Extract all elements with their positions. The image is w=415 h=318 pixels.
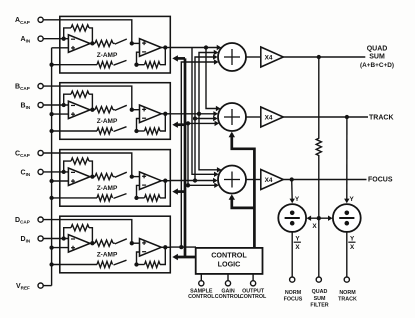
svg-text:X4: X4 [265,114,273,121]
junction output row 1 tap [317,55,321,59]
wire summer S2 to X4 amplifier [246,116,261,118]
wire op-amp A2 - input to feedback node [137,52,140,64]
wire op-amp B2 - input to feedback node [137,119,140,132]
D_CAP terminal [38,217,43,222]
wire D2 output to block edge [161,246,170,248]
wire D output to bus [170,246,196,248]
junction v188 / S2 tap [186,121,190,125]
svg-text:CONTROL: CONTROL [188,294,215,300]
op-amp A1 first stage [68,35,90,53]
wire resistor D2 to output [160,247,165,264]
resistor feedback D2 [145,261,161,267]
control wire to Z-AMP D [178,256,196,259]
resistor lower gain A [97,62,113,68]
junction op-amp C2 output [163,179,167,183]
svg-text:CONTROL: CONTROL [215,294,242,300]
svg-text:Z-AMP: Z-AMP [97,252,118,259]
op-amp D1 first stage [68,235,90,253]
resistor lower gain D [97,261,113,267]
op-amp B1 first stage [68,101,90,119]
feedback loop wire B1 [64,94,93,110]
wire resistor A2 to output [160,48,165,65]
terminal QUAD SUM FILTER [316,277,321,282]
switch upper C [113,176,115,178]
junction A2 feedback node [134,63,138,67]
wire control box to GAIN CONTROL terminal [227,274,229,281]
op-amp C1 first stage [68,168,90,186]
bus wire v188 D taps [187,123,189,185]
resistor series D [95,240,113,246]
wire lower gain path B [52,130,97,132]
wire A_IN to op-amp inverting input [43,38,68,40]
bus wire v206 A to S2 [206,48,217,109]
svg-text:LOGIC: LOGIC [218,260,241,269]
wire op-amp C1 + input to rail [52,180,69,182]
control riser to Z-AMP blocks [184,58,187,257]
wire C_IN to op-amp inverting input [43,171,68,173]
bus wire v195 tap to S2 [195,118,214,120]
junction D output / bus v181 [179,245,183,249]
resistor feedback B2 [145,128,161,134]
svg-text:X4: X4 [265,177,273,184]
terminal NORM FOCUS [290,277,295,282]
junction output row 2 tap [345,115,349,119]
Z-AMP block C enclosure [60,150,171,207]
control wire to Z-AMP B [178,123,186,126]
svg-text:FOCUS: FOCUS [284,297,303,303]
wire op-amp B1 + input to rail [52,113,69,115]
wire C output to summer S3 [170,180,214,182]
wire switch node to op-amp A2 + input [132,42,140,44]
node C switch junction [130,174,134,178]
svg-text:(A+B+C+D): (A+B+C+D) [360,62,394,69]
switch upper D [113,242,115,244]
junction rail / A lower gain path [49,63,53,67]
wire C_CAP to switch node [43,153,132,177]
wire track tap down to divider D2 Y input [346,117,348,201]
summing amplifier S2 [218,103,246,131]
wire quad-sum tap down to filter node [318,57,320,277]
control wire to Z-AMP C [178,190,186,193]
wire op-amp A1 + input to rail [52,47,69,49]
wire B1 output to series resistor [90,109,95,111]
wire D1 output to series resistor [90,242,95,244]
op-amp D2 second stage [140,239,162,257]
junction C_IN / feedback [62,170,66,174]
Z-AMP block B enclosure [60,83,171,140]
resistor lower gain C [97,195,113,201]
wire X4 output row 1 [283,56,365,58]
bus wire v192 A to S3 [192,48,215,175]
wire lower gain path D [52,264,97,266]
svg-text:FILTER: FILTER [310,302,328,308]
junction rail / C op-amp + input [49,179,53,183]
bus wire v188 tap to S3 [188,184,215,186]
wire D_CAP to switch node [43,220,132,244]
terminal NORM TRACK [344,277,349,282]
wire focus tap down to divider D1 Y input [291,180,294,201]
switch lower C [114,194,127,199]
wire resistor B2 to output [160,114,165,131]
svg-text:SUM: SUM [314,296,326,302]
junction op-amp D2 output [163,245,167,249]
svg-text:NORM: NORM [339,290,356,296]
switch lower B [114,127,127,132]
amplifier X4 row 1 [261,47,284,67]
resistor lower gain B [97,128,113,134]
wire A2 output to block edge [161,47,170,49]
wire lower gain path C [52,197,97,199]
switch upper B [113,109,115,111]
resistor feedback A1 [71,25,89,31]
svg-text:TRACK: TRACK [338,297,357,303]
wire op-amp D1 + input to rail [52,247,69,249]
resistor series C [95,174,113,180]
wire switch node to op-amp C2 + input [132,176,140,178]
junction op-amp B2 output [163,112,167,116]
resistor quad sum filter [316,138,321,155]
junction B output / bus v199 [197,112,201,116]
feedback loop wire A1 [64,28,93,44]
control wire to Z-AMP A [178,57,186,60]
junction D2 feedback node [134,262,138,266]
wire B_IN to op-amp inverting input [43,104,68,106]
op-amp B2 second stage [140,105,162,123]
wire feedback node to resistor A2 [137,64,145,66]
wire summer S1 to X4 amplifier [246,56,261,58]
amplifier X4 row 3 [261,170,284,190]
wire divider output NORM FOCUS [291,232,293,277]
resistor feedback C1 [71,158,89,164]
A_CAP terminal [38,17,43,22]
svg-text:Y: Y [350,196,355,203]
svg-text:CONTROL: CONTROL [211,251,247,260]
Z-AMP block D enclosure [60,216,171,273]
svg-text:QUAD: QUAD [312,289,328,295]
Z-AMP block A enclosure [60,16,171,73]
wire V_REF to rail [43,285,51,287]
junction rail / D op-amp + input [49,245,53,249]
summing amplifier S3 [218,166,246,194]
control logic block [196,248,263,274]
switch lower A [114,60,127,65]
junction X line / filter net [317,216,321,220]
wire A output to summer S1 [170,47,217,49]
wire feedback node to resistor D2 [137,264,145,266]
junction rail / D lower gain path [49,262,53,266]
switch upper A [113,42,115,44]
wire control box to OUTPUT CONTROL terminal [252,274,254,281]
junction rail / B op-amp + input [49,112,53,116]
node B switch junction [130,108,134,112]
wire switch node to op-amp B2 + input [132,109,140,111]
junction B_IN / feedback [62,103,66,107]
control wire to summer S3 [232,196,255,208]
wire C2 output to block edge [161,180,170,182]
wire X inputs between dividers [309,217,330,219]
resistor feedback C2 [145,195,161,201]
wire resistor C2 to output [160,181,165,198]
bus wire v181 D to S1 [181,62,214,247]
wire X4 output row 3 [283,179,366,181]
A_IN terminal [38,36,43,41]
terminal SAMPLE CONTROL [199,281,204,286]
terminal OUTPUT CONTROL [251,281,256,286]
svg-text:Z-AMP: Z-AMP [97,185,118,192]
junction op-amp A2 output [163,45,167,49]
divider D2 [333,204,361,232]
wire A1 output to series resistor [90,42,95,44]
wire lower gain path A [52,64,97,66]
summing amplifier S1 [218,43,246,71]
amplifier X4 row 2 [261,107,284,127]
svg-text:SUM: SUM [369,53,385,60]
wire X4 output row 2 [283,116,368,118]
wire B_CAP to switch node [43,86,132,110]
junction op-amp B1 output [90,108,94,112]
wire op-amp C2 - input to feedback node [137,185,140,198]
V_REF rail vertical [51,48,53,286]
op-amp A2 second stage [140,39,162,57]
wire control box to SAMPLE CONTROL terminal [200,274,202,281]
junction A output / bus v206 [204,45,208,49]
svg-text:TRACK: TRACK [369,115,394,122]
op-amp C2 second stage [140,172,162,190]
junction op-amp A1 output [90,41,94,45]
wire feedback node to resistor C2 [137,197,145,199]
wire divider output NORM TRACK [346,232,348,277]
wire feedback node to resistor B2 [137,130,145,132]
svg-text:Y: Y [295,196,300,203]
svg-text:X4: X4 [265,54,273,61]
junction C output / bus v195 [193,178,197,182]
svg-text:NORM: NORM [285,290,302,296]
wire B2 output to block edge [161,113,170,115]
svg-text:X: X [312,223,317,230]
node A switch junction [130,41,134,45]
feedback loop wire C1 [64,161,93,177]
junction rail / B lower gain path [49,129,53,133]
feedback loop wire D1 [64,228,93,244]
D_IN terminal [38,236,43,241]
resistor feedback D1 [71,225,89,231]
junction D_IN / feedback [62,236,66,240]
wire op-amp D2 - input to feedback node [137,252,140,265]
C_CAP terminal [38,150,43,155]
wire summer S3 to X4 amplifier [246,179,261,181]
svg-text:Z-AMP: Z-AMP [97,118,118,125]
svg-text:QUAD: QUAD [367,46,388,53]
junction v188 / S3 tap [186,183,190,187]
node D switch junction [130,241,134,245]
wire C1 output to series resistor [90,176,95,178]
junction v195 / S2 tap [193,116,197,120]
switch lower D [114,260,127,265]
wire A_CAP to switch node [43,20,132,44]
wire B output to summer S2 [170,113,214,115]
resistor feedback A2 [145,62,161,68]
svg-text:Z-AMP: Z-AMP [97,52,118,59]
resistor series B [95,107,113,113]
V_REF terminal [38,283,43,288]
resistor feedback B1 [71,91,89,97]
junction C2 feedback node [134,196,138,200]
resistor series A [95,40,113,46]
junction rail / C lower gain path [49,196,53,200]
B_IN terminal [38,102,43,107]
wire D_IN to op-amp inverting input [43,238,68,240]
svg-text:FOCUS: FOCUS [368,176,393,183]
junction output row 3 tap [290,177,294,181]
control wire to summer S2 [232,134,255,248]
wire switch node to op-amp D2 + input [132,242,140,244]
terminal GAIN CONTROL [225,281,230,286]
junction A_IN / feedback [62,37,66,41]
bus wire v188 tap to S2 [188,122,215,124]
svg-text:CONTROL: CONTROL [240,294,267,300]
divider D1 [278,204,306,232]
C_IN terminal [38,169,43,174]
junction op-amp C1 output [90,174,94,178]
B_CAP terminal [38,84,43,89]
junction op-amp D1 output [90,241,94,245]
bus wire v195 C to S1 [195,57,214,181]
bus wire v199 B to S1 and S3 [199,53,218,170]
junction B2 feedback node [134,129,138,133]
